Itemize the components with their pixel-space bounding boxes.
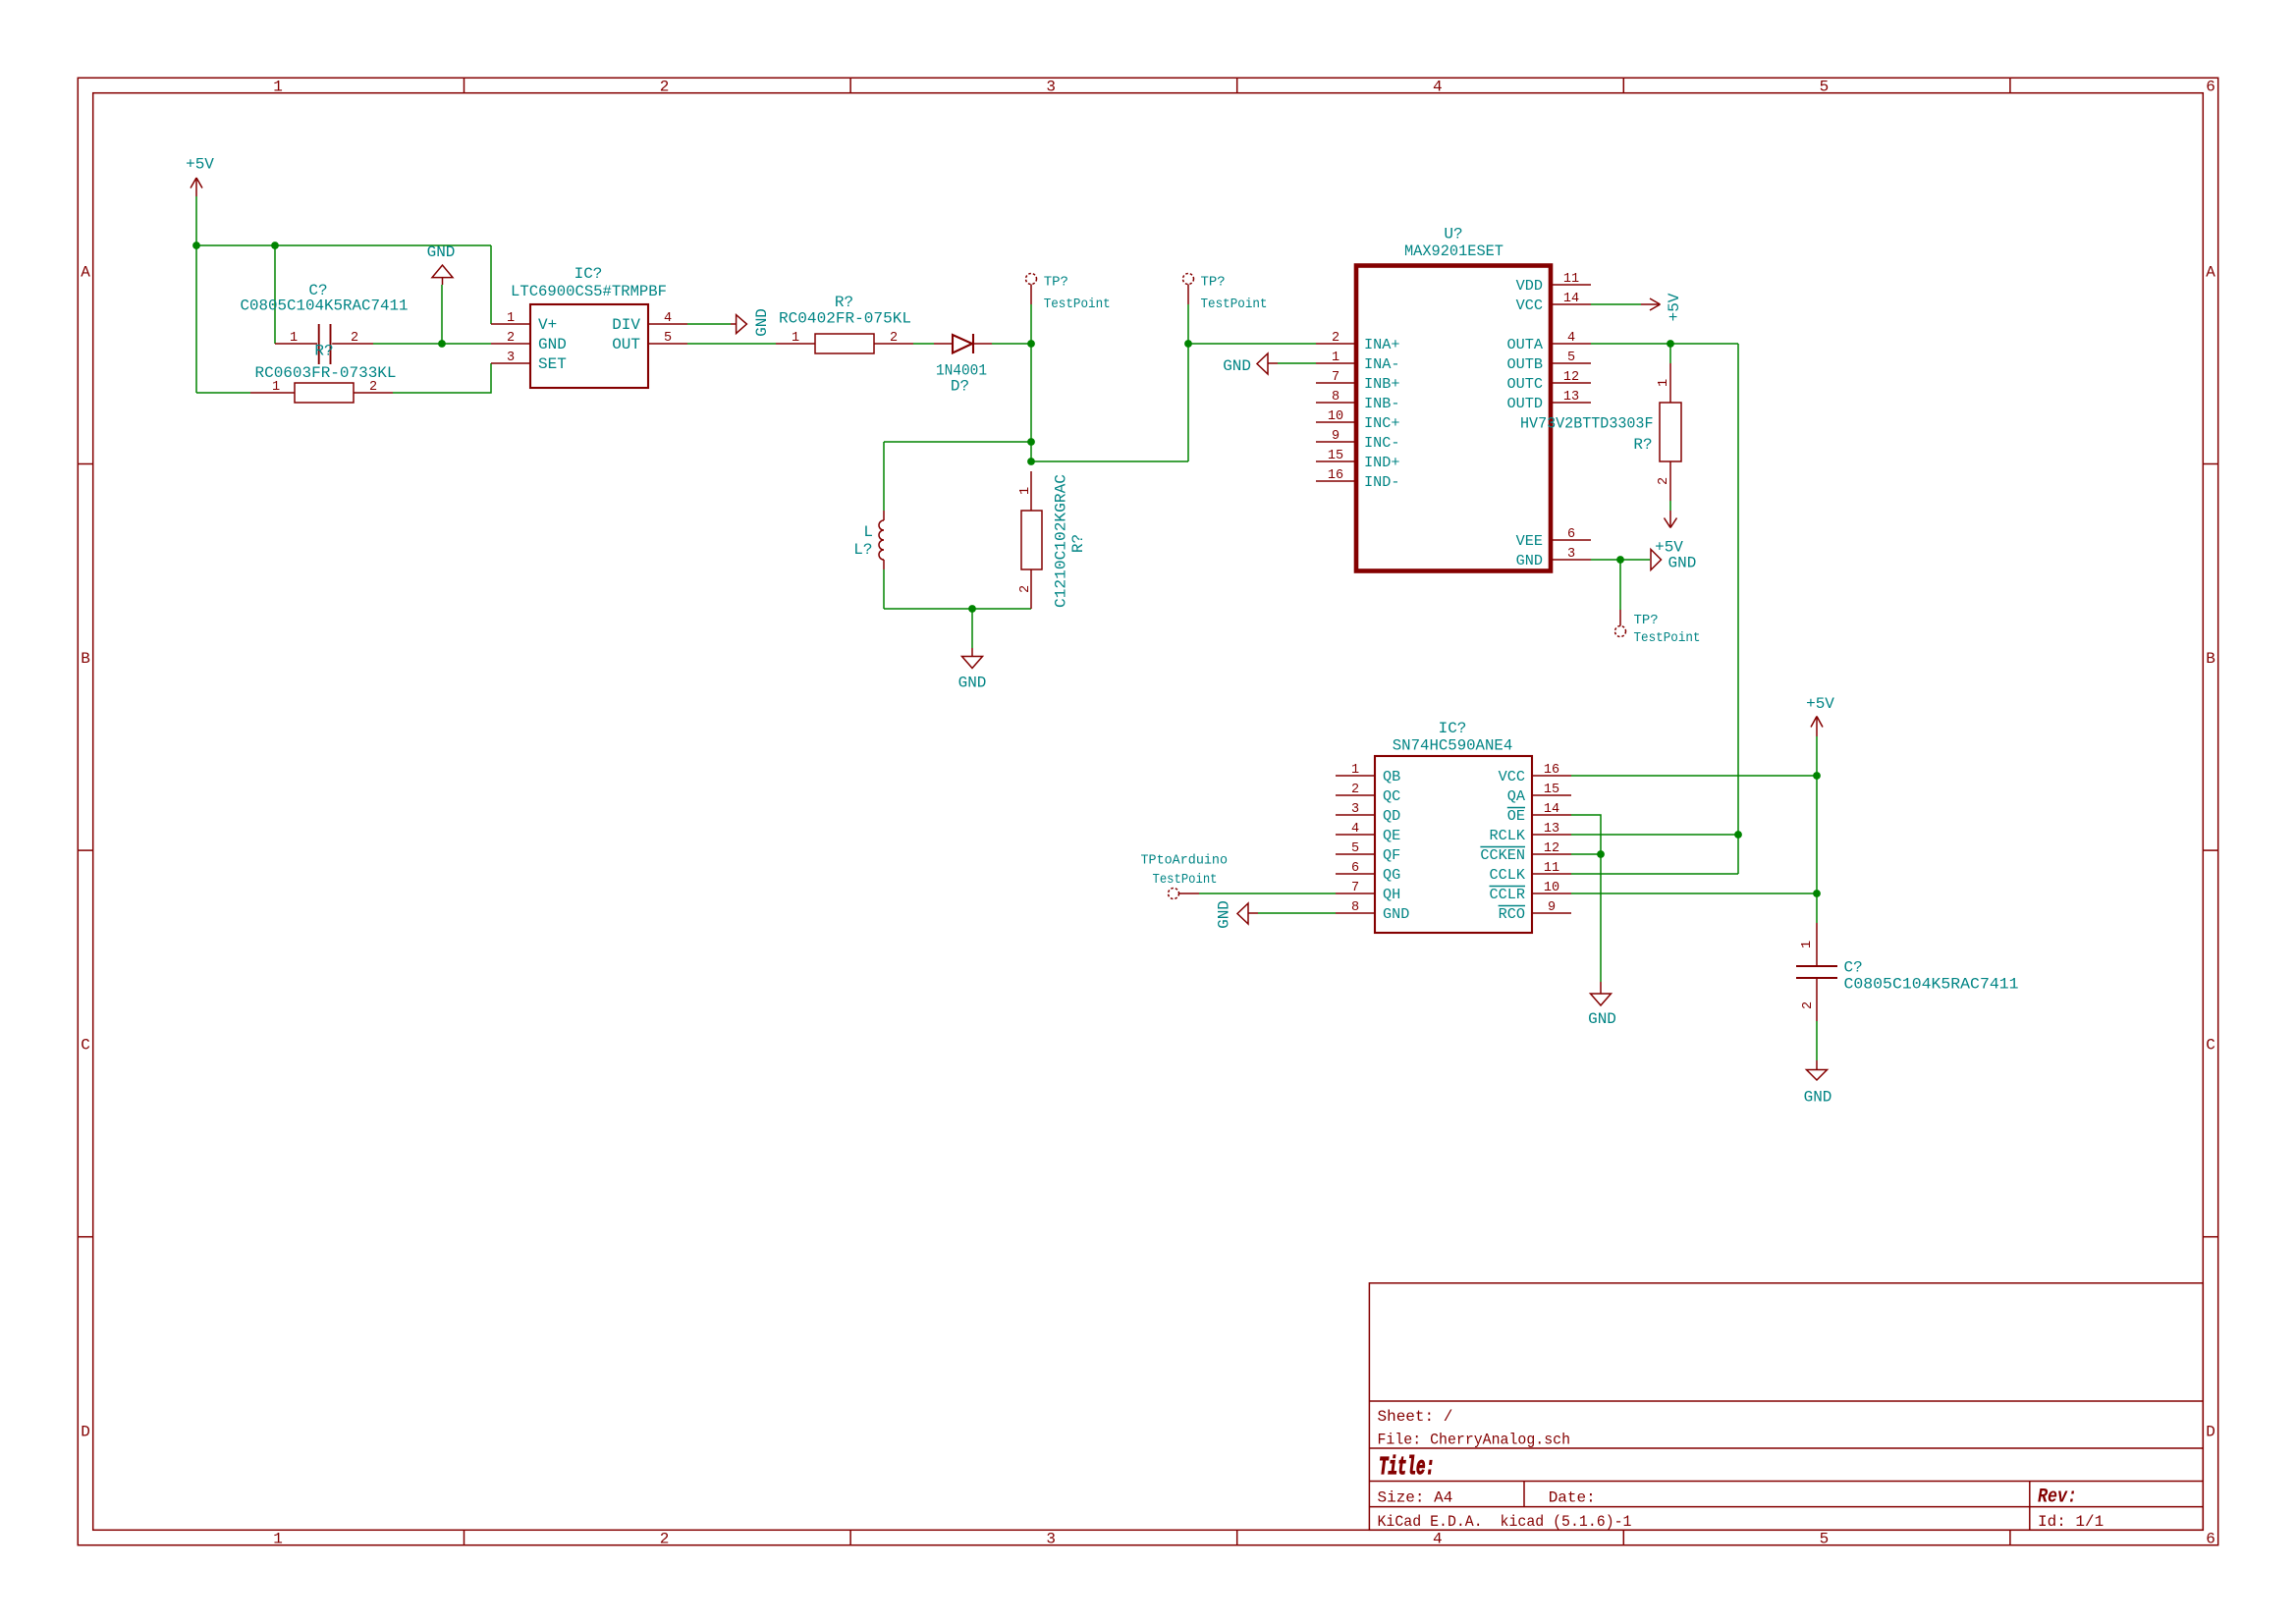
svg-text:Sheet: /: Sheet: / [1378,1408,1453,1426]
svg-text:Date:: Date: [1549,1489,1596,1507]
svg-text:12: 12 [1544,841,1559,856]
wire +5V rail horizontal [196,244,491,246]
svg-text:RCLK: RCLK [1490,827,1526,844]
svg-text:INA+: INA+ [1364,336,1399,353]
svg-text:16: 16 [1544,763,1559,778]
junction at 1650,570 [1616,556,1624,564]
IC1 pin 1 V+ [491,311,557,334]
svg-text:7: 7 [1351,881,1359,895]
svg-text:TestPoint: TestPoint [1153,872,1218,888]
power GND down below C3 [1807,1060,1828,1080]
svg-text:6: 6 [1567,527,1575,542]
svg-text:INC+: INC+ [1364,414,1399,432]
power +5V rail arrow [1811,717,1823,737]
svg-text:TestPoint: TestPoint [1634,630,1701,646]
svg-text:CCLR: CCLR [1490,886,1525,903]
U1 pin 14 VCC [1516,292,1591,314]
wire R3 pin2 to +5V [1669,501,1671,511]
shift register IC2 SN74HC590 body [1375,756,1532,933]
power GND down below OE [1591,982,1612,1005]
svg-text:1: 1 [273,79,283,96]
resistor R3 body [1660,403,1681,461]
svg-text:1: 1 [272,380,280,395]
U1 pin 10 INC+ [1316,409,1399,432]
wire C3 pin2 down [1816,1021,1818,1060]
power GND left-pointing at IC2 pin8 [1237,903,1258,924]
U1 pin 3 GND [1516,547,1591,569]
svg-text:OUTA: OUTA [1507,336,1544,353]
svg-text:R?: R? [314,343,333,360]
svg-text:L: L [863,523,873,541]
wire TP2 to INA+ [1188,343,1316,345]
svg-text:Title:: Title: [1379,1452,1435,1482]
svg-text:RCO: RCO [1499,905,1525,923]
IC2 pin 15 QA [1507,783,1571,805]
IC2 pin 7 QH [1336,881,1400,903]
svg-text:OUTC: OUTC [1507,375,1543,393]
svg-text:GND: GND [1804,1089,1832,1107]
svg-text:8: 8 [1351,900,1359,915]
svg-text:4: 4 [1433,1531,1443,1548]
svg-text:QD: QD [1383,807,1400,825]
svg-text:INA-: INA- [1364,355,1399,373]
svg-text:15: 15 [1544,783,1559,797]
svg-text:INC-: INC- [1364,434,1399,452]
IC2 pin 1 QB [1336,763,1400,785]
U1 pin 1 INA- [1316,351,1399,373]
svg-text:2: 2 [660,1531,670,1548]
wire to R1 pin1 [196,392,250,394]
svg-text:2: 2 [890,331,898,346]
svg-text:5: 5 [1567,351,1575,365]
border row ticks right [2203,464,2217,1237]
diode D1 triangle [953,335,972,353]
capacitor C3 plates [1796,966,1837,978]
wire GND junction down to TP3 [1619,560,1621,610]
svg-text:1: 1 [1351,763,1359,778]
svg-text:4: 4 [1567,331,1575,346]
wire R1 pin2 to SET [393,363,491,393]
svg-text:B: B [81,650,90,668]
border column numbers bottom [273,1531,2215,1548]
IC2 pin 11 CCLK [1490,861,1571,884]
svg-text:Id: 1/1: Id: 1/1 [2038,1513,2104,1531]
wire D1 to junction [992,343,1031,345]
U1 pin 2 INA+ [1316,331,1399,353]
junction at 1050,350 [1027,340,1035,348]
capacitor C2 C1210 pin1 [1030,471,1032,511]
border column numbers top [273,79,2215,96]
U1 pin 11 VDD [1516,272,1591,295]
testpoint TP4 stem [1179,893,1200,894]
op-amp IC1 LTC6900 body [530,304,648,388]
svg-text:1: 1 [273,1531,283,1548]
svg-text:3: 3 [1046,79,1056,96]
svg-text:6: 6 [1351,861,1359,876]
capacitor C1 plates [319,324,331,364]
U1 pin 5 OUTB [1507,351,1591,373]
junction at 1770,850 [1734,831,1742,839]
IC2 pin 13 RCLK [1490,822,1571,844]
wire GND pin3 [1591,559,1650,561]
junction at 1050,450 [1027,438,1035,446]
junction at 1701,350 [1667,340,1674,348]
wire inductor top drop [883,442,885,511]
wire DIV to GND [687,323,731,325]
junction at 450,350 [438,340,446,348]
svg-text:RC0402FR-075KL: RC0402FR-075KL [779,310,911,328]
U1 pin 9 INC- [1316,429,1399,452]
wire node down from diode junction [1030,344,1032,461]
power GND down at LC [962,648,983,669]
capacitor C1 pin2 [332,343,373,345]
svg-text:13: 13 [1563,390,1579,405]
wire LC bottom [884,608,1031,610]
wire V+ drop [490,245,492,324]
svg-text:3: 3 [1567,547,1575,562]
border row letters right [2206,264,2215,1441]
svg-text:D: D [81,1423,90,1440]
svg-text:QC: QC [1383,787,1400,805]
svg-text:A: A [81,264,90,282]
svg-text:1: 1 [507,311,515,326]
wire OUT to R2 [687,343,776,345]
svg-text:D?: D? [951,378,969,396]
U1 pin 16 IND- [1316,468,1399,491]
svg-text:+5V: +5V [1655,539,1683,557]
svg-text:B: B [2206,650,2215,668]
IC2 pin 9 RCO [1499,900,1571,923]
svg-text:VCC: VCC [1499,768,1525,785]
diode D1 anode pin [934,343,953,345]
svg-text:GND: GND [1516,552,1543,569]
svg-text:5: 5 [664,331,672,346]
svg-text:OUT: OUT [612,336,640,353]
svg-text:GND: GND [958,675,987,692]
resistor R2 pin2 [874,343,913,345]
svg-text:IND+: IND+ [1364,454,1399,471]
svg-text:QA: QA [1507,787,1526,805]
testpoint TP4 TPtoArduino circle [1169,889,1179,899]
diode D1 cathode pin [974,343,992,345]
wire +5V rail mid [1816,776,1818,893]
capacitor C3 pin2 [1816,979,1818,1021]
svg-text:A: A [2206,264,2215,282]
resistor R2 body [815,334,874,353]
svg-text:9: 9 [1548,900,1556,915]
border row letters left [81,264,90,1441]
svg-text:QH: QH [1383,886,1400,903]
svg-text:GND: GND [753,308,771,337]
resistor R3 pin1 [1669,363,1671,403]
svg-text:OE: OE [1507,807,1525,825]
svg-text:INB-: INB- [1364,395,1399,412]
wire R2 to D1 [913,343,934,345]
junction at 280,250 [271,242,279,249]
IC2 pin 3 QD [1336,802,1400,825]
svg-text:1: 1 [290,331,298,346]
inductor L1 [879,511,884,569]
comparator U1 MAX9201 body [1356,266,1551,571]
power +5V down at R3 [1665,511,1677,528]
wire C1 pin2 to IC [373,343,491,345]
IC1 pin 3 SET [491,351,567,373]
svg-text:VEE: VEE [1516,532,1543,550]
svg-text:2: 2 [1657,477,1671,485]
IC2 pin 14 OE [1507,802,1571,825]
wire inductor bottom [883,569,885,609]
svg-text:OUTB: OUTB [1507,355,1543,373]
U1 pin 12 OUTC [1507,370,1591,393]
svg-text:SN74HC590ANE4: SN74HC590ANE4 [1393,737,1513,755]
svg-text:5: 5 [1351,841,1359,856]
svg-text:5: 5 [1820,79,1830,96]
svg-text:IC?: IC? [1439,720,1467,737]
power GND right-pointing at U1 pin3 [1651,550,1662,570]
wire GND to INA- [1278,362,1316,364]
diode D1 cathode bar [972,334,974,353]
svg-text:+5V: +5V [1666,293,1683,321]
wire TP4 to QH [1199,893,1336,894]
capacitor C2 C1210 pin2 [1030,569,1032,609]
svg-text:GND: GND [1588,1010,1616,1028]
svg-text:L?: L? [853,541,872,559]
svg-text:GND: GND [1223,357,1251,375]
svg-text:11: 11 [1563,272,1579,287]
svg-text:1: 1 [1018,487,1033,495]
svg-text:9: 9 [1332,429,1339,444]
IC1 pin 5 OUT [612,331,687,353]
svg-text:C0805C104K5RAC7411: C0805C104K5RAC7411 [1844,976,2019,994]
svg-text:13: 13 [1544,822,1559,837]
svg-text:+5V: +5V [186,156,214,174]
wire left rail down [195,245,197,393]
svg-text:IC?: IC? [574,265,603,283]
U1 pin 4 OUTA [1507,331,1591,353]
wire GND to IC2 pin8 [1258,912,1336,914]
svg-text:12: 12 [1563,370,1579,385]
U1 pin 7 INB+ [1316,370,1399,393]
wire RCLK13 to vertical [1571,834,1738,836]
svg-text:INB+: INB+ [1364,375,1399,393]
border row ticks left [78,464,92,1237]
power GND left-pointing at INA- [1257,353,1278,374]
svg-text:GND: GND [1216,900,1233,929]
resistor R1 pin2 [354,392,393,394]
IC2 pin 4 QE [1336,822,1400,844]
svg-text:R?: R? [1633,436,1652,454]
junction at 1210,350 [1184,340,1192,348]
svg-text:V+: V+ [538,316,557,334]
IC2 pin 10 CCLR [1490,881,1572,903]
svg-text:SET: SET [538,355,567,373]
svg-text:2: 2 [369,380,377,395]
svg-text:16: 16 [1328,468,1343,483]
wire CCKEN12 [1571,853,1601,855]
testpoint TP2 stem [1187,285,1189,305]
svg-text:R?: R? [835,294,853,311]
wire GND stem LC [971,609,973,648]
svg-text:2: 2 [1332,331,1339,346]
svg-text:LTC6900CS5#TRMPBF: LTC6900CS5#TRMPBF [511,283,667,300]
svg-text:14: 14 [1544,802,1559,817]
svg-text:6: 6 [2206,79,2215,96]
svg-text:DIV: DIV [612,316,640,334]
svg-text:14: 14 [1563,292,1579,306]
svg-text:+5V: +5V [1806,695,1834,713]
svg-text:QE: QE [1383,827,1400,844]
svg-text:OUTD: OUTD [1507,395,1543,412]
junction at 990,620 [968,605,976,613]
wire OUTA junction to R3 [1669,344,1671,363]
svg-text:10: 10 [1544,881,1559,895]
svg-text:C1210C102KGRAC: C1210C102KGRAC [1053,474,1070,608]
wire +5V rail to C3 [1816,893,1818,923]
IC1 pin 4 DIV [612,311,687,334]
title block box [1369,1283,2203,1531]
U1 pin 13 OUTD [1507,390,1591,412]
wire TP1 down [1030,304,1032,344]
resistor R2 pin1 [776,343,815,345]
svg-text:C: C [81,1037,90,1055]
svg-text:TP?: TP? [1044,275,1068,291]
testpoint TP2 circle [1183,274,1194,285]
svg-text:Size: A4: Size: A4 [1378,1489,1453,1507]
svg-text:6: 6 [2206,1531,2215,1548]
svg-text:4: 4 [1351,822,1359,837]
resistor R1 body [295,383,354,403]
U1 pin 8 INB- [1316,390,1399,412]
power +5V top-left arrow [191,178,202,196]
IC2 pin 2 QC [1336,783,1400,805]
junction at 1630,870 [1597,850,1605,858]
svg-text:1: 1 [792,331,799,346]
svg-text:U?: U? [1444,226,1462,243]
IC1 pin 2 GND [491,331,567,353]
svg-text:GND: GND [538,336,567,353]
power GND right-pointing at DIV [731,315,746,334]
svg-text:2: 2 [351,331,358,346]
power GND above cap symbol [432,265,453,285]
svg-text:IND-: IND- [1364,473,1399,491]
wire OUTA to junction [1591,343,1670,345]
svg-text:TPtoArduino: TPtoArduino [1141,853,1229,869]
testpoint TP3 circle [1615,626,1626,637]
svg-text:1: 1 [1800,941,1815,948]
testpoint TP1 circle [1026,274,1037,285]
wire CCLR10 to +5V rail [1571,893,1817,894]
IC2 pin 12 CCKEN [1480,841,1571,864]
svg-text:4: 4 [1433,79,1443,96]
title block row lines [1369,1401,2203,1530]
wire +5V stem [195,196,197,245]
junction at 1850,910 [1813,890,1821,897]
wire OUTA long right [1670,343,1738,345]
svg-text:15: 15 [1328,449,1343,463]
capacitor C2 C1210 body [1021,511,1042,569]
svg-text:File: CherryAnalog.sch: File: CherryAnalog.sch [1378,1432,1571,1449]
svg-text:QG: QG [1383,866,1400,884]
svg-text:KiCad E.D.A. kicad (5.1.6)-1: KiCad E.D.A. kicad (5.1.6)-1 [1378,1513,1632,1531]
resistor R3 pin2 [1669,461,1671,501]
wire TP2 down [1187,304,1189,344]
svg-text:7: 7 [1332,370,1339,385]
wire C1 pin1 drop [274,245,276,344]
wire VCC to +5V [1591,303,1641,305]
wire VCC16 to +5V rail [1571,775,1817,777]
svg-text:8: 8 [1332,390,1339,405]
svg-text:2: 2 [507,331,515,346]
wire to inductor top [884,441,1031,443]
wire TP2 branch left [1031,460,1188,462]
IC2 pin 6 QG [1336,861,1400,884]
svg-text:QB: QB [1383,768,1400,785]
svg-text:MAX9201ESET: MAX9201ESET [1404,243,1503,260]
wire +5V rail down [1816,736,1818,776]
svg-text:QF: QF [1383,846,1400,864]
svg-text:2: 2 [1801,1001,1816,1009]
IC2 pin 5 QF [1336,841,1400,864]
U1 pin 15 IND+ [1316,449,1399,471]
junction at 1850,790 [1813,772,1821,780]
wire TP2 branch down [1187,344,1189,461]
svg-text:11: 11 [1544,861,1559,876]
svg-text:TP?: TP? [1634,613,1659,628]
svg-text:VDD: VDD [1516,277,1543,295]
svg-text:C?: C? [1844,959,1863,977]
IC2 pin 8 GND [1336,900,1409,923]
svg-text:D: D [2206,1423,2215,1440]
svg-text:1: 1 [1332,351,1339,365]
power +5V right-pointing at VCC [1641,298,1661,310]
svg-text:TestPoint: TestPoint [1201,297,1268,312]
testpoint TP1 stem [1030,285,1032,305]
svg-text:4: 4 [664,311,672,326]
svg-text:CCLK: CCLK [1490,866,1526,884]
wire CCLK11 [1571,873,1738,875]
svg-text:TestPoint: TestPoint [1044,297,1111,312]
IC2 pin 16 VCC [1499,763,1571,785]
border column ticks bottom [465,1530,2010,1544]
border column ticks top [465,78,2010,92]
svg-text:3: 3 [1351,802,1359,817]
svg-text:VCC: VCC [1516,297,1543,314]
junction at 1050,470 [1027,458,1035,465]
svg-text:R?: R? [1069,534,1087,553]
U1 pin 6 VEE [1516,527,1591,550]
svg-text:1: 1 [1657,379,1671,387]
svg-text:GND: GND [427,243,456,261]
svg-text:C0805C104K5RAC7411: C0805C104K5RAC7411 [241,298,409,315]
junction at 200,250 [192,242,200,249]
svg-text:Rev:: Rev: [2038,1487,2077,1509]
wire OUTA vertical to CCLK [1737,344,1739,874]
svg-text:CCKEN: CCKEN [1480,846,1525,864]
wire OE14 right [1571,815,1601,982]
svg-text:RC0603FR-0733KL: RC0603FR-0733KL [255,364,397,382]
svg-text:10: 10 [1328,409,1343,424]
svg-text:3: 3 [1046,1531,1056,1548]
wire GND drop to C1 wire [441,285,443,344]
svg-text:C: C [2206,1037,2215,1055]
svg-text:2: 2 [1351,783,1359,797]
capacitor C3 pin1 [1816,923,1818,965]
svg-text:TP?: TP? [1201,275,1226,291]
svg-text:HV73V2BTTD3303F: HV73V2BTTD3303F [1520,415,1654,433]
svg-text:2: 2 [1018,585,1033,593]
svg-text:GND: GND [1668,555,1697,572]
resistor R1 pin1 [250,392,295,394]
